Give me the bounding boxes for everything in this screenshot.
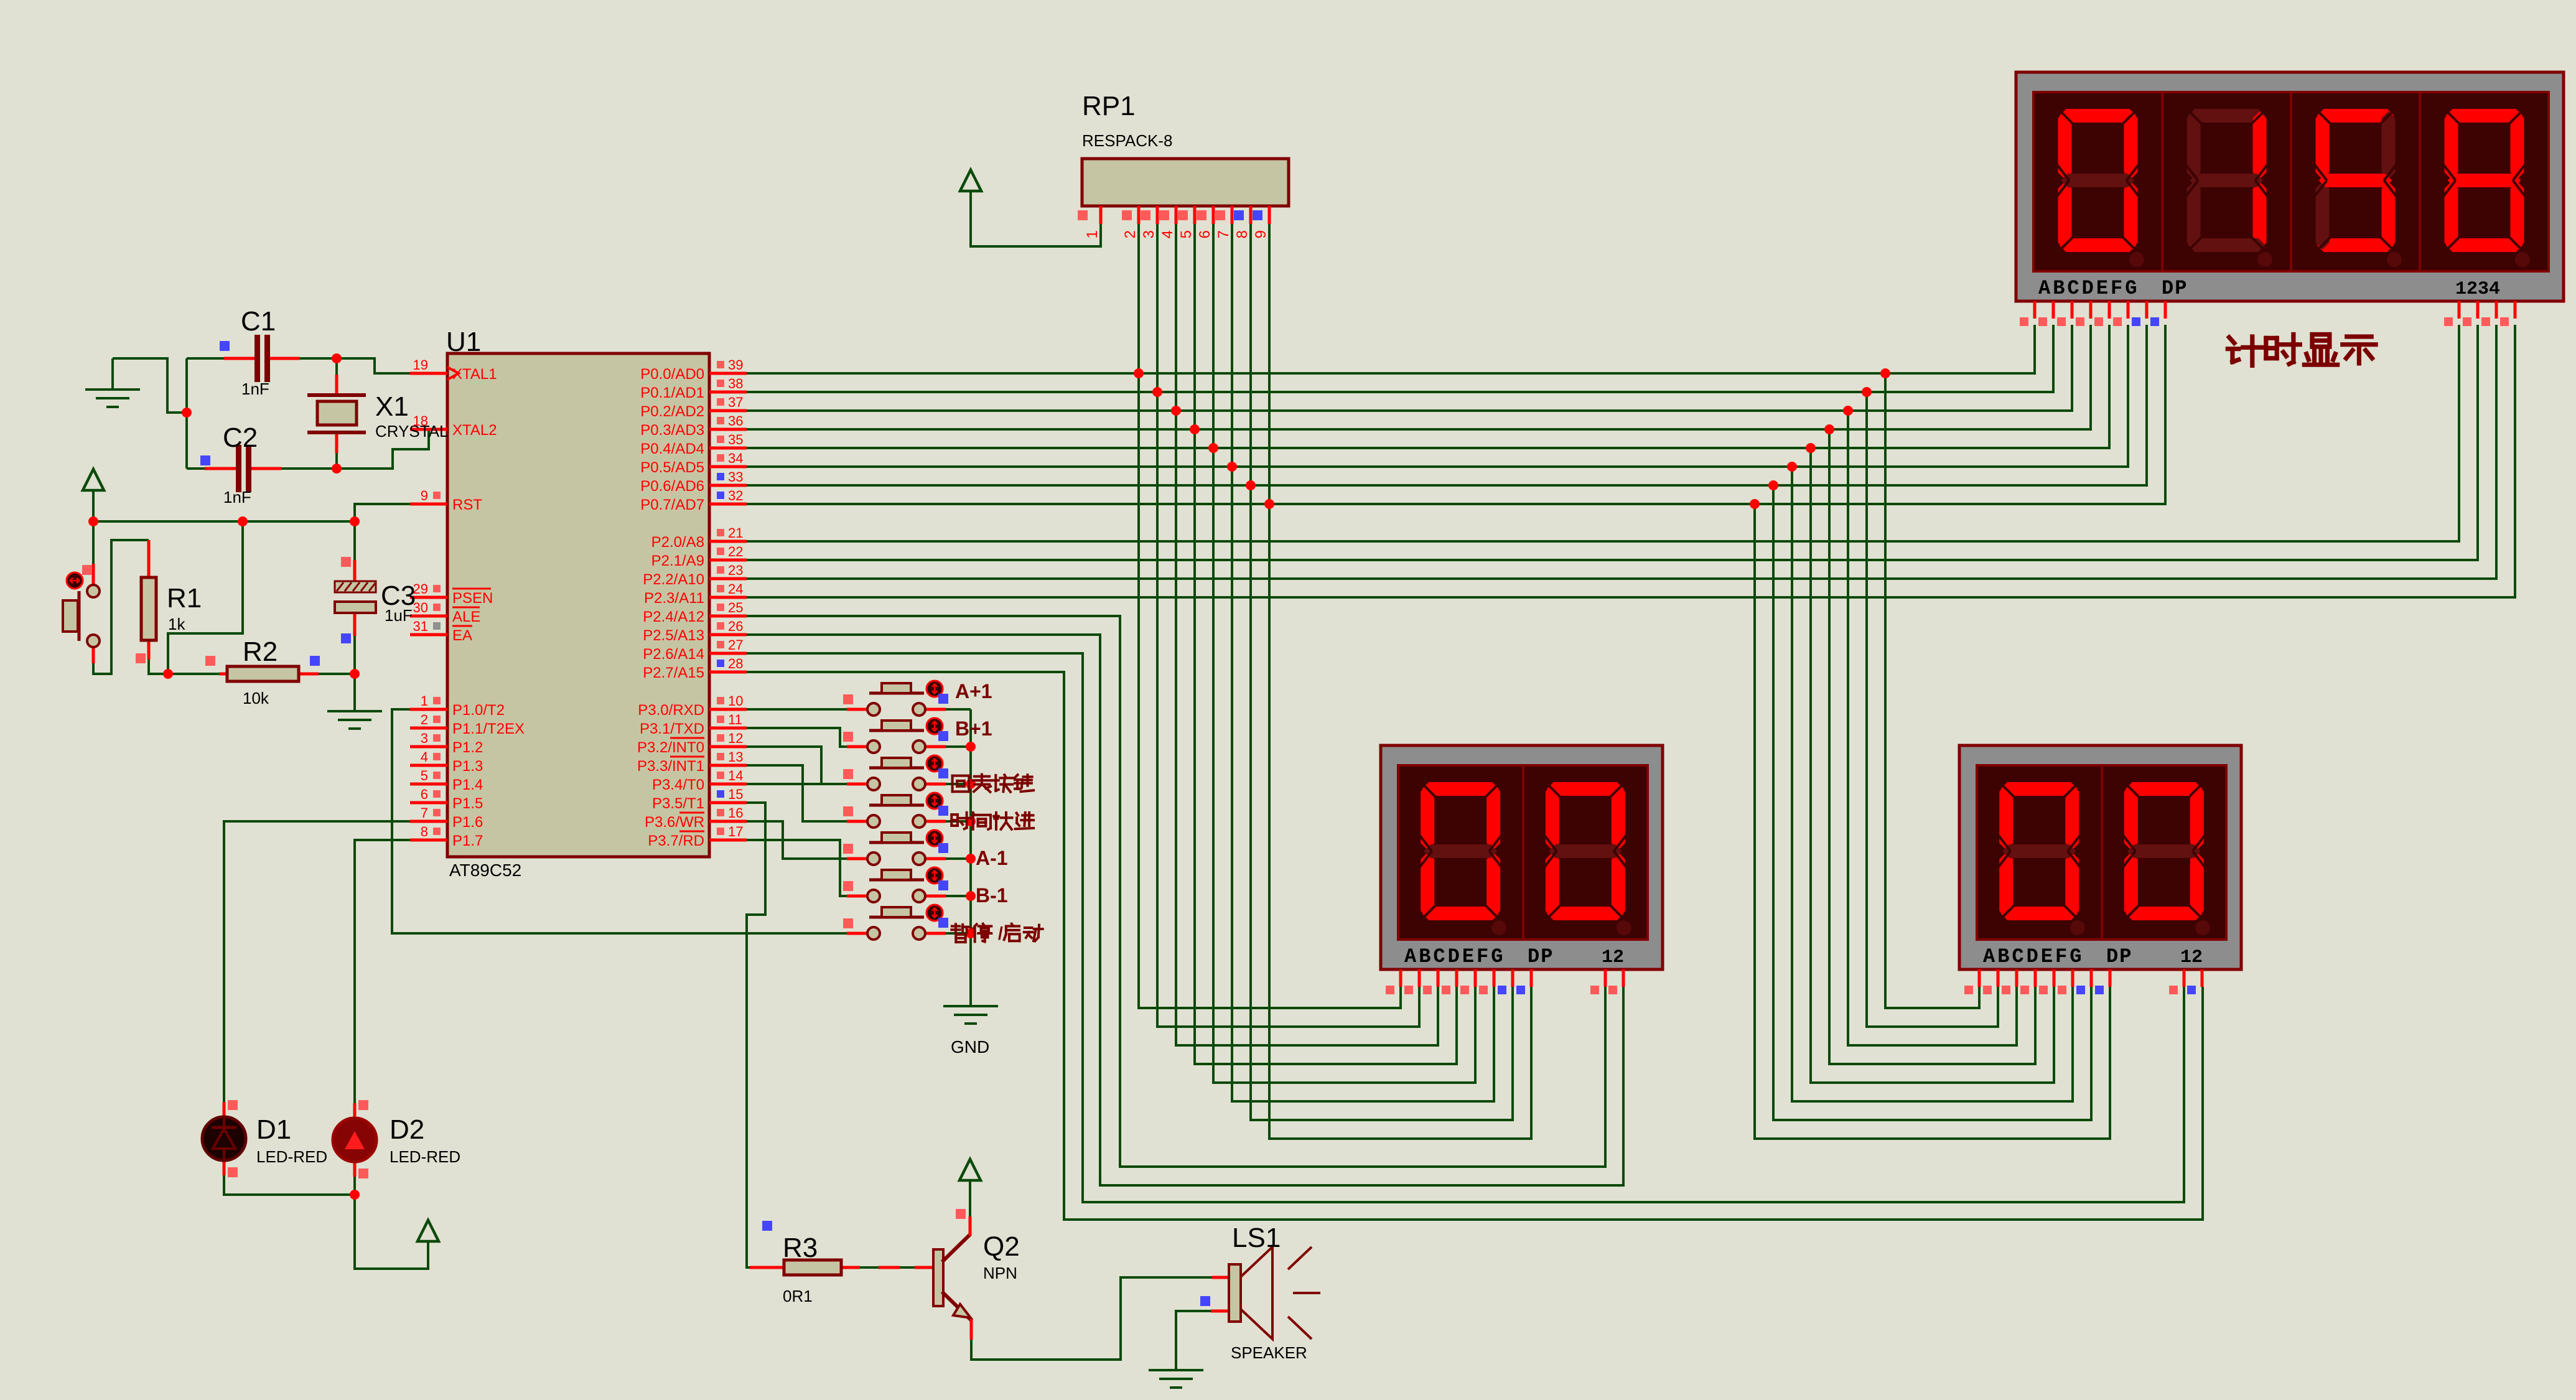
- wire P0.4 tap to DS3 segment: [1811, 448, 2054, 1083]
- wire ground bus of buttons: [969, 709, 972, 1005]
- svg-text:P2.0/A8: P2.0/A8: [651, 534, 704, 551]
- svg-text:2: 2: [421, 712, 428, 727]
- svg-text:19: 19: [413, 357, 428, 373]
- wire button 4 to ground bus: [946, 820, 971, 823]
- wire P3.7 to button B-1: [747, 840, 847, 896]
- display DS2 two-digit seven-segment (00): [1381, 745, 1663, 994]
- svg-text:C1: C1: [241, 306, 276, 337]
- svg-text:P3.4/T0: P3.4/T0: [652, 777, 704, 793]
- svg-text:34: 34: [728, 450, 743, 466]
- speaker LS1: [1200, 1223, 1320, 1362]
- svg-text:RP1: RP1: [1082, 91, 1136, 121]
- svg-text:P1.3: P1.3: [452, 758, 483, 775]
- wire P2.3 digit-select row: [747, 325, 2515, 597]
- svg-text:1nF: 1nF: [241, 380, 269, 398]
- LED D1: [202, 1100, 327, 1177]
- capacitor C3 1uF: [335, 557, 416, 643]
- wire RP1 pin7 column to DS2 segment: [1232, 224, 1494, 1101]
- svg-text:LS1: LS1: [1232, 1223, 1281, 1253]
- wire P0.2 tap to DS3 segment: [1848, 411, 2017, 1045]
- svg-text:23: 23: [728, 562, 743, 578]
- wire P1.7 to D2: [355, 840, 411, 1103]
- wire P0.2 bus row: [747, 325, 2072, 411]
- svg-text:1nF: 1nF: [223, 488, 251, 506]
- power arrow Q2 collector: [959, 1159, 981, 1180]
- svg-text:33: 33: [728, 469, 743, 485]
- wire P2.1 digit-select row: [747, 325, 2478, 560]
- svg-text:/: /: [998, 924, 1003, 944]
- svg-text:DP: DP: [2106, 945, 2132, 968]
- svg-text:D2: D2: [390, 1114, 424, 1145]
- wire RP1 pin1 to VCC: [971, 191, 1101, 246]
- svg-text:P0.3/AD3: P0.3/AD3: [640, 422, 704, 439]
- wire crystal top: [335, 358, 338, 375]
- wire speaker to ground: [1176, 1311, 1211, 1369]
- svg-text:ALE: ALE: [452, 609, 480, 625]
- svg-text:P3.6/WR: P3.6/WR: [645, 814, 704, 831]
- svg-text:P3.5/T1: P3.5/T1: [652, 795, 704, 812]
- wire button 7 to ground bus: [946, 932, 971, 935]
- wire P0.6 tap to DS3 segment: [1773, 485, 2091, 1120]
- svg-text:P1.0/T2: P1.0/T2: [452, 702, 505, 719]
- svg-text:P0.0/AD0: P0.0/AD0: [640, 366, 704, 383]
- wire P0.7 bus row: [747, 325, 2165, 504]
- svg-text:21: 21: [728, 525, 743, 541]
- svg-text:P2.1/A9: P2.1/A9: [651, 553, 704, 569]
- svg-text:P3.2/INT0: P3.2/INT0: [637, 739, 704, 756]
- svg-text:R3: R3: [783, 1233, 818, 1263]
- wire button 3 to ground bus: [946, 783, 971, 785]
- svg-text:31: 31: [413, 618, 428, 634]
- svg-text:SPEAKER: SPEAKER: [1231, 1343, 1307, 1362]
- svg-text:P2.7/A15: P2.7/A15: [643, 665, 704, 681]
- wire C3 column: [353, 521, 356, 560]
- display DS3 two-digit seven-segment (00): [1959, 745, 2241, 994]
- wire RST to reset net: [355, 504, 410, 521]
- wire P3.5 to R3: [747, 803, 765, 1267]
- svg-text:38: 38: [728, 376, 743, 391]
- resistor R1 1k: [136, 540, 202, 663]
- svg-text:10: 10: [728, 693, 743, 709]
- svg-text:P0.7/AD7: P0.7/AD7: [640, 497, 704, 513]
- svg-text:9: 9: [421, 488, 428, 503]
- svg-text:ABCDEFG: ABCDEFG: [1404, 945, 1505, 968]
- svg-text:3: 3: [1141, 230, 1157, 238]
- svg-text:P2.6/A14: P2.6/A14: [643, 646, 704, 663]
- wire P3.0 to button A+1: [747, 708, 847, 711]
- svg-text:25: 25: [728, 600, 743, 615]
- wire P2.2 digit-select row: [747, 325, 2496, 579]
- svg-text:8: 8: [421, 824, 428, 839]
- svg-text:P0.5/AD5: P0.5/AD5: [640, 459, 704, 476]
- reset button: [63, 564, 100, 663]
- wire R1 bottom to R2 left: [149, 660, 219, 674]
- button A-1: [843, 830, 1008, 869]
- wire P3.1 to button B+1: [747, 728, 847, 747]
- svg-text:LED-RED: LED-RED: [256, 1147, 327, 1166]
- svg-text:13: 13: [728, 749, 743, 765]
- wire button 1 to ground bus: [946, 708, 971, 711]
- wire P0.7 tap to DS3 segment: [1755, 504, 2110, 1139]
- wire P0.5 tap to DS3 segment: [1792, 467, 2073, 1101]
- wire P2.6 to display DS3 pin 1: [747, 653, 2184, 1202]
- svg-text:P3.1/TXD: P3.1/TXD: [640, 721, 704, 737]
- svg-text:P1.2: P1.2: [452, 739, 483, 756]
- wire P0.0 tap to DS3 segment: [1885, 373, 1979, 1008]
- svg-text:1: 1: [1084, 230, 1101, 238]
- svg-text:1uF: 1uF: [385, 606, 413, 625]
- wire C2 row to XTAL2: [187, 467, 205, 470]
- wire C1 row to XTAL1: [187, 357, 224, 360]
- svg-text:4: 4: [1159, 230, 1176, 238]
- svg-text:B-1: B-1: [976, 884, 1008, 907]
- wire D1 cathode to node: [224, 1175, 355, 1195]
- crystal X1: [307, 375, 449, 453]
- button B-1: [843, 867, 1008, 907]
- svg-text:36: 36: [728, 413, 743, 429]
- resistor pack RP1 RESPACK-8: [1078, 91, 1289, 238]
- svg-text:P0.2/AD2: P0.2/AD2: [640, 403, 704, 420]
- svg-text:RST: RST: [452, 497, 482, 513]
- wire P3.2 to button 3: [747, 747, 847, 784]
- svg-text:R2: R2: [243, 637, 278, 667]
- wire P3.6 to button A-1: [747, 821, 847, 859]
- capacitor C2: [200, 422, 281, 506]
- svg-text:10k: 10k: [243, 689, 269, 707]
- svg-text:17: 17: [728, 824, 743, 839]
- wire RP1 pin8 column to DS2 segment: [1251, 224, 1513, 1120]
- wire Q2 emitter to speaker: [971, 1277, 1212, 1360]
- wire P0.4 bus row: [747, 325, 2109, 448]
- svg-text:32: 32: [728, 488, 743, 503]
- svg-text:15: 15: [728, 786, 743, 802]
- svg-text:P0.1/AD1: P0.1/AD1: [640, 385, 704, 401]
- wire P2.7 to display DS3 pin 2: [747, 672, 2203, 1220]
- svg-text:XTAL2: XTAL2: [452, 422, 497, 439]
- wire P0.1 bus row: [747, 325, 2053, 392]
- svg-text:DP: DP: [2162, 277, 2188, 300]
- svg-text:12: 12: [728, 730, 743, 746]
- svg-text:A-1: A-1: [976, 847, 1008, 869]
- wire P0.0 bus row: [747, 325, 2035, 373]
- capacitor C1: [220, 306, 300, 398]
- svg-text:P1.4: P1.4: [452, 777, 483, 793]
- svg-text:ABCDEFG: ABCDEFG: [1983, 945, 2084, 968]
- microcontroller U1 AT89C52: [410, 327, 747, 880]
- label 计时显示: [2228, 335, 2376, 366]
- svg-text:5: 5: [421, 768, 428, 783]
- svg-text:RESPACK-8: RESPACK-8: [1082, 131, 1172, 150]
- svg-text:22: 22: [728, 544, 743, 559]
- wire RP1 pin5 column to DS2 segment: [1195, 224, 1457, 1064]
- svg-text:P0.4/AD4: P0.4/AD4: [640, 441, 704, 457]
- svg-text:26: 26: [728, 618, 743, 634]
- wire R2 right to C3 column: [319, 673, 355, 675]
- wire P0.3 bus row: [747, 325, 2091, 429]
- svg-text:7: 7: [1215, 230, 1232, 238]
- wire crystal bottom: [335, 453, 338, 469]
- wire P2.4 to display DS2 pin 1: [747, 616, 1605, 1167]
- wire LED common to VCC arrow: [355, 1177, 428, 1269]
- svg-text:12: 12: [2180, 947, 2203, 968]
- wire P0.5 bus row: [747, 325, 2128, 467]
- svg-text:7: 7: [421, 805, 428, 821]
- wire R3 to Q2 base: [860, 1266, 933, 1269]
- svg-text:P1.6: P1.6: [452, 814, 483, 831]
- svg-text:14: 14: [728, 768, 743, 783]
- button B+1: [843, 717, 992, 753]
- wire reset net: [93, 520, 355, 523]
- svg-text:39: 39: [728, 357, 743, 373]
- svg-text:37: 37: [728, 394, 743, 410]
- svg-text:EA: EA: [452, 627, 472, 644]
- wire RP1 pin6 column to DS2 segment: [1213, 224, 1475, 1083]
- wire reset button to R1 top: [93, 540, 149, 674]
- svg-text:27: 27: [728, 637, 743, 653]
- resistor R2 10k: [205, 637, 320, 707]
- svg-text:12: 12: [1602, 947, 1624, 968]
- ground symbol under speaker: [1149, 1370, 1203, 1388]
- svg-text:6: 6: [1197, 230, 1213, 238]
- svg-text:16: 16: [728, 805, 743, 821]
- display DS1 four-digit seven-segment (0158): [2016, 72, 2564, 326]
- transistor Q2 NPN: [933, 1209, 1020, 1340]
- svg-text:0R1: 0R1: [783, 1287, 813, 1305]
- svg-text:P3.7/RD: P3.7/RD: [648, 833, 704, 849]
- svg-text:C2: C2: [223, 422, 258, 453]
- wire RP1 pin4 column to DS2 segment: [1176, 224, 1438, 1045]
- svg-text:NPN: NPN: [983, 1264, 1017, 1282]
- wire P3.4 row: [747, 783, 821, 785]
- svg-text:P2.4/A12: P2.4/A12: [643, 609, 704, 625]
- wire C1/C2 left common: [185, 358, 188, 469]
- svg-text:35: 35: [728, 432, 743, 447]
- wire VCC arrow to reset button: [92, 490, 95, 564]
- button 回表按键: [843, 755, 1034, 792]
- svg-text:P3.3/INT1: P3.3/INT1: [637, 758, 704, 775]
- svg-text:A+1: A+1: [955, 680, 992, 702]
- power arrow RP1: [960, 170, 981, 191]
- svg-text:1234: 1234: [2455, 279, 2500, 300]
- wire P3.3 to button 4: [747, 765, 847, 821]
- resistor R3 0R1: [750, 1221, 860, 1305]
- svg-text:B+1: B+1: [955, 717, 992, 740]
- button 暂停/启动: [843, 905, 1043, 944]
- wire P0.3 tap to DS3 segment: [1829, 429, 2035, 1064]
- svg-text:U1: U1: [446, 327, 481, 357]
- wire button 2 to ground bus: [946, 745, 971, 748]
- wire RP1 pin3 column to DS2 segment: [1157, 224, 1419, 1027]
- wire P2.5 to display DS2 pin 2: [747, 635, 1623, 1185]
- power arrow reset net: [83, 469, 104, 490]
- wire ground to C1/C2 common: [113, 358, 187, 413]
- svg-text:GND: GND: [951, 1037, 989, 1057]
- svg-text:P1.1/T2EX: P1.1/T2EX: [452, 721, 525, 737]
- svg-text:2: 2: [1122, 230, 1139, 238]
- svg-text:P1.5: P1.5: [452, 795, 483, 812]
- wire P2.0 digit-select row: [747, 325, 2459, 541]
- svg-text:P0.6/AD6: P0.6/AD6: [640, 478, 704, 495]
- wire P1.0 to button pause/start: [392, 709, 847, 933]
- ground symbol top-left: [85, 390, 140, 407]
- button A+1: [843, 680, 992, 716]
- svg-text:R1: R1: [167, 583, 202, 614]
- svg-text:PSEN: PSEN: [452, 590, 493, 607]
- svg-text:ABCDEFG: ABCDEFG: [2038, 277, 2139, 300]
- svg-text:6: 6: [421, 786, 428, 802]
- wire RP1 pin9 column to DS2 segment: [1269, 224, 1531, 1139]
- wire ground stem top-left: [111, 358, 114, 390]
- svg-text:LED-RED: LED-RED: [390, 1147, 460, 1166]
- svg-text:4: 4: [421, 749, 428, 765]
- svg-text:X1: X1: [375, 391, 409, 422]
- LED D2: [333, 1100, 460, 1178]
- wire Q2 collector to VCC: [969, 1180, 971, 1216]
- svg-text:8: 8: [1234, 230, 1251, 238]
- button 时间快进: [843, 793, 1034, 829]
- svg-text:28: 28: [728, 656, 743, 671]
- svg-text:Q2: Q2: [983, 1231, 1020, 1262]
- svg-text:1: 1: [421, 693, 428, 709]
- svg-text:11: 11: [728, 712, 742, 727]
- ground symbol GND under buttons: [943, 1006, 998, 1057]
- svg-text:P2.5/A13: P2.5/A13: [643, 627, 704, 644]
- wire jog reset net to R2 row: [168, 521, 243, 674]
- wire P0.1 tap to DS3 segment: [1867, 392, 1998, 1027]
- svg-text:P3.0/RXD: P3.0/RXD: [638, 702, 704, 719]
- svg-text:P2.2/A10: P2.2/A10: [643, 571, 704, 588]
- wire button 6 to ground bus: [946, 895, 971, 897]
- svg-text:9: 9: [1253, 230, 1269, 238]
- svg-text:5: 5: [1178, 230, 1195, 238]
- svg-text:D1: D1: [256, 1114, 291, 1145]
- wire P0.6 bus row: [747, 325, 2147, 485]
- svg-text:AT89C52: AT89C52: [449, 861, 521, 880]
- svg-text:1k: 1k: [168, 615, 185, 633]
- wire P1.6 to D1: [224, 821, 411, 1102]
- svg-text:P1.7: P1.7: [452, 833, 483, 849]
- svg-text:3: 3: [421, 730, 428, 746]
- svg-text:24: 24: [728, 581, 743, 597]
- svg-text:P2.3/A11: P2.3/A11: [644, 590, 704, 607]
- power arrow LED common: [418, 1220, 439, 1241]
- svg-text:CRYSTAL: CRYSTAL: [375, 422, 449, 441]
- ground symbol under C3: [327, 711, 382, 729]
- wire button 5 to ground bus: [946, 857, 971, 860]
- svg-text:DP: DP: [1528, 945, 1554, 968]
- wire RP1 pin2 column to DS2 segment: [1139, 224, 1401, 1008]
